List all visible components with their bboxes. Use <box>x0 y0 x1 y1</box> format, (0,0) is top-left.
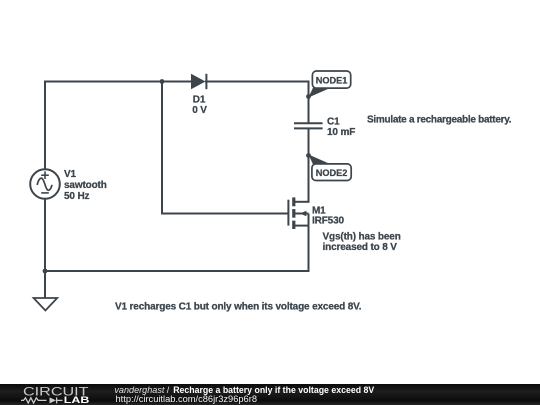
flag NODE2 <box>309 155 352 181</box>
svg-text:NODE1: NODE1 <box>316 76 348 86</box>
svg-text:IRF530: IRF530 <box>312 216 344 227</box>
wire gate vertical from node A <box>161 82 163 214</box>
flag NODE1 <box>309 71 351 98</box>
wire bottom rail <box>44 270 309 272</box>
node ground junction dot <box>43 269 48 274</box>
svg-text:V1 recharges C1 but only when: V1 recharges C1 but only when its voltag… <box>115 302 362 313</box>
ground <box>34 298 58 311</box>
transistor M1 (NMOS) <box>288 197 309 229</box>
svg-text:C1: C1 <box>327 117 340 128</box>
svg-text:LAB: LAB <box>64 395 90 405</box>
wire right vertical (C1 bottom plate to M1 drain) <box>308 129 310 202</box>
wire right vertical top (corner to C1 top plate) <box>308 81 310 124</box>
svg-text:Vgs(th) has been: Vgs(th) has been <box>323 232 401 243</box>
node NODE1 junction dot <box>306 94 311 99</box>
svg-text:V1: V1 <box>64 169 77 180</box>
svg-text:sawtooth: sawtooth <box>64 180 107 191</box>
svg-text:D1: D1 <box>193 95 206 106</box>
wire top rail left segment <box>44 81 192 83</box>
svg-text:10 mF: 10 mF <box>327 127 355 138</box>
wire left vertical (top rail to V1) <box>44 81 46 170</box>
wire top rail right segment <box>205 81 309 83</box>
node A junction dot <box>160 79 165 84</box>
footer bar <box>0 384 540 405</box>
wire M1 source down to bottom rail <box>308 226 310 272</box>
capacitor C1 <box>294 123 323 128</box>
svg-text:http://circuitlab.com/c86jr3z9: http://circuitlab.com/c86jr3z96p6r8 <box>116 394 258 404</box>
svg-text:NODE2: NODE2 <box>316 168 348 178</box>
wire gate horizontal to M1 gate <box>161 213 289 215</box>
wire V1 bottom to bottom rail <box>44 199 46 271</box>
wire ground stub <box>44 271 46 298</box>
svg-text:0 V: 0 V <box>192 105 207 116</box>
svg-text:Simulate a rechargeable batter: Simulate a rechargeable battery. <box>367 115 512 126</box>
voltage source V1 <box>30 169 60 199</box>
logo resistor zigzag and diode <box>21 397 63 403</box>
svg-text:50 Hz: 50 Hz <box>64 191 90 202</box>
svg-text:increased to 8 V: increased to 8 V <box>323 242 398 253</box>
node NODE2 junction dot <box>306 153 311 158</box>
diode D1 <box>191 74 206 89</box>
